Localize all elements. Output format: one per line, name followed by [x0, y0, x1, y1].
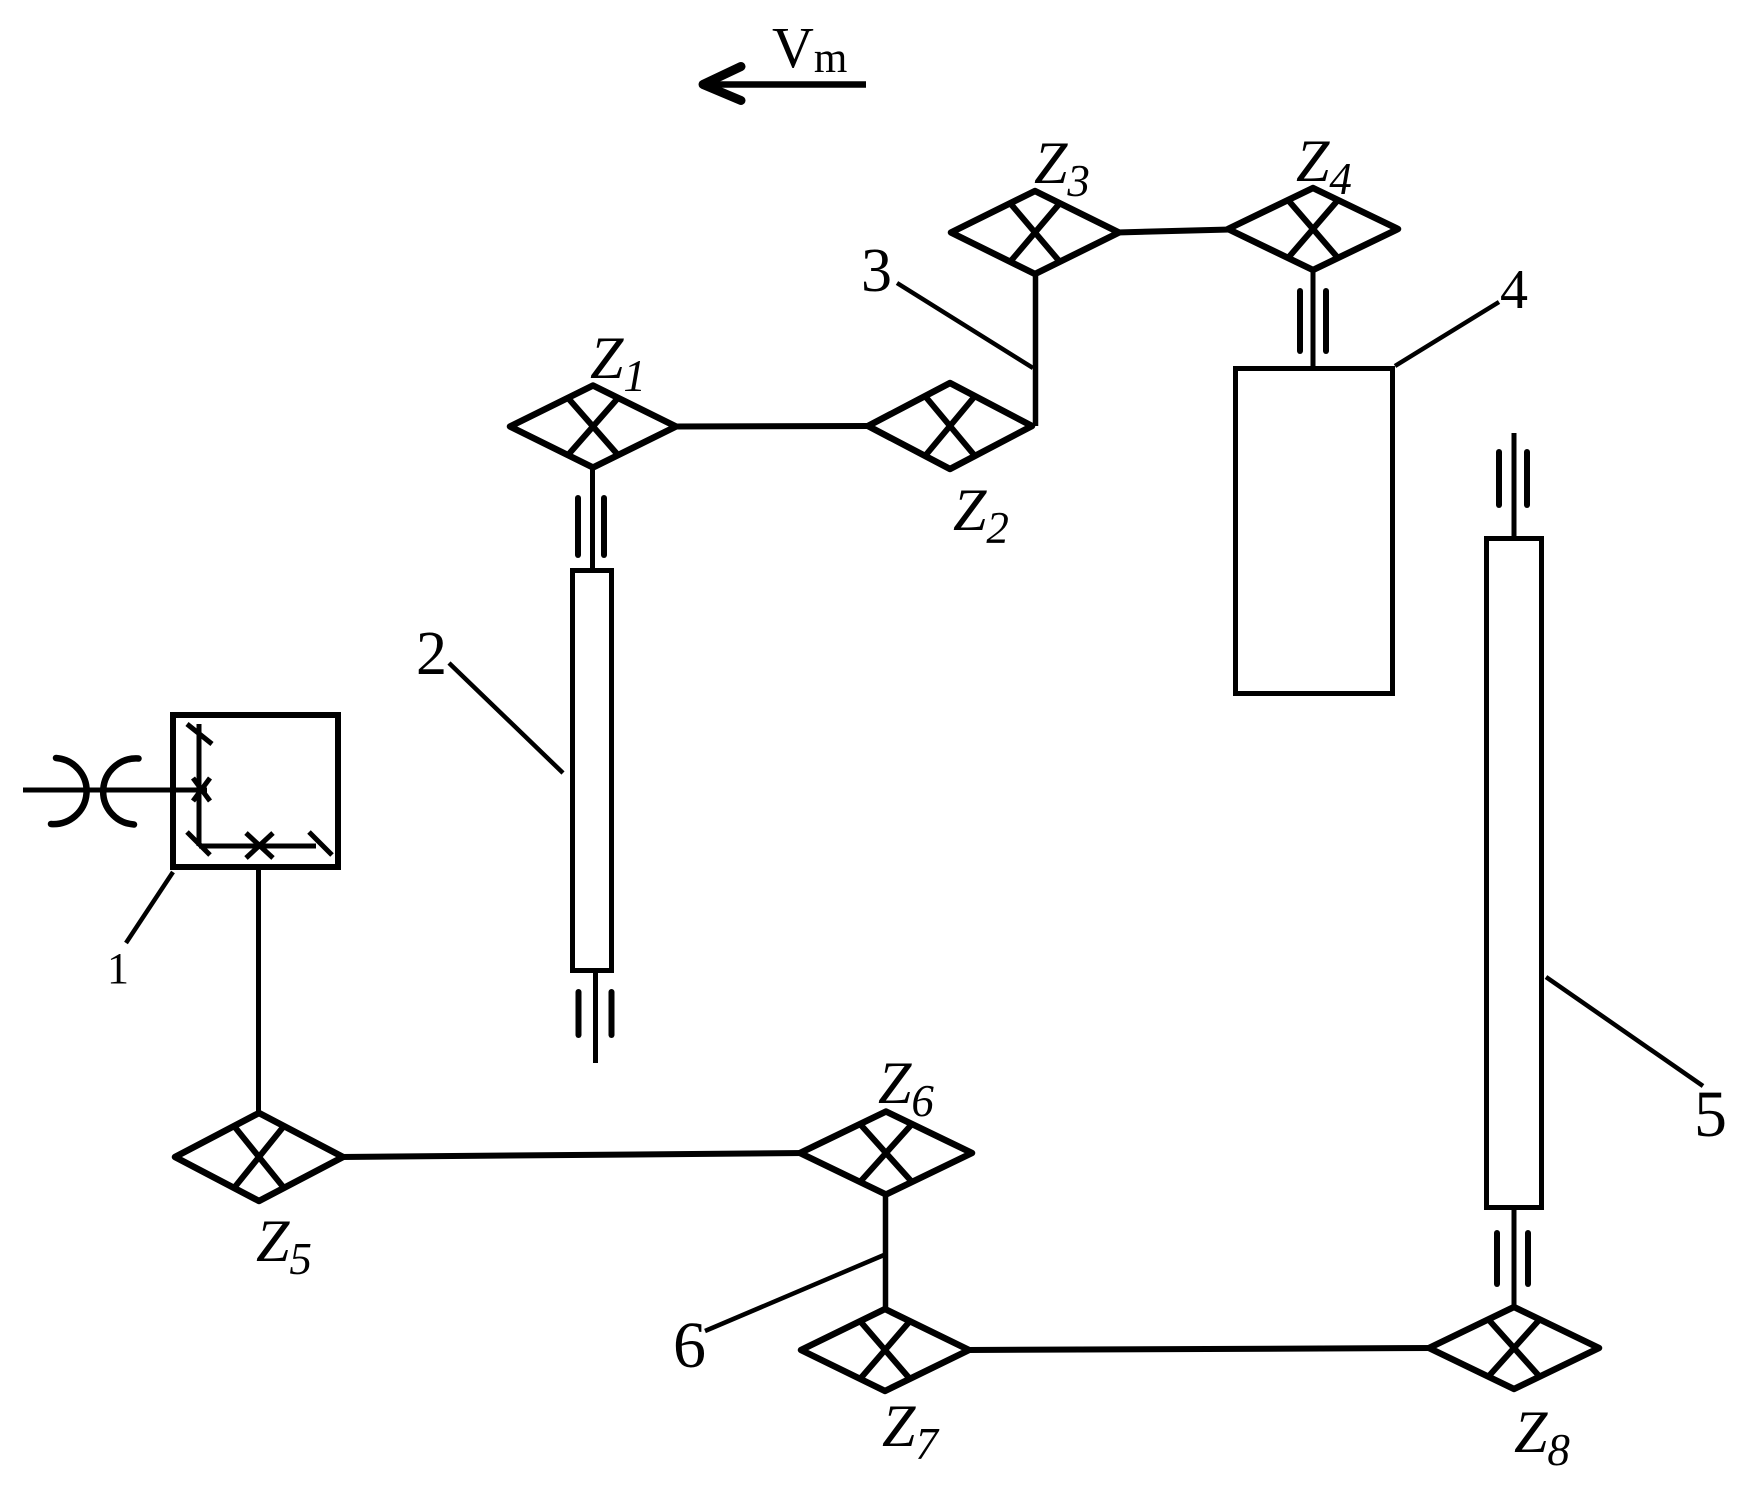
- gearbox 1 housing: [173, 715, 338, 867]
- worm cross on input shaft: [193, 778, 210, 801]
- coupling marks above column 5: [1499, 452, 1527, 505]
- leader line 2: [449, 663, 563, 773]
- shaft wire Z5-Z6: [341, 1153, 805, 1157]
- vertical shaft 6 (Z6-Z7): [883, 1192, 889, 1310]
- coupling marks below column 2: [579, 992, 612, 1035]
- output shaft gearbox to Z5: [256, 868, 261, 1115]
- coupling marks above column 2: [578, 498, 604, 555]
- bevel gear Z1: [510, 386, 676, 468]
- coupling marks below column 5: [1497, 1233, 1528, 1284]
- block 4: [1236, 369, 1393, 694]
- shaft wire Z4 to block 4: [1311, 268, 1316, 368]
- bevel gear Z2: [868, 383, 1032, 469]
- shaft wire Z3-Z4: [1117, 230, 1230, 233]
- svg-text:1: 1: [107, 944, 129, 993]
- coupling marks above block 4: [1300, 291, 1326, 351]
- leader line 5: [1546, 977, 1703, 1086]
- leader line 4: [1395, 302, 1499, 366]
- shaft wire Z1 to column 2: [590, 466, 595, 570]
- bevel gear Z7: [801, 1309, 969, 1391]
- svg-text:2: 2: [416, 620, 447, 688]
- shaft wire column 5 to Z8: [1512, 1210, 1517, 1309]
- bevel gear Z5: [175, 1113, 343, 1201]
- gear cross on lower shaft: [246, 833, 273, 858]
- bevel gear Z3: [951, 191, 1119, 274]
- bevel gear Z4: [1228, 188, 1398, 270]
- bearing tick top: [187, 724, 212, 744]
- bearing tick right: [309, 832, 332, 855]
- svg-text:4: 4: [1500, 259, 1528, 321]
- gearbox internal gear shafts: [199, 724, 316, 846]
- column 2 (lead screw): [573, 571, 612, 971]
- column 5 (lead screw): [1487, 539, 1542, 1208]
- bevel gear Z8: [1429, 1307, 1599, 1389]
- shaft stub above column 5: [1512, 433, 1517, 538]
- svg-text:5: 5: [1694, 1078, 1727, 1151]
- leader line 3: [897, 283, 1033, 368]
- svg-text:6: 6: [673, 1309, 706, 1382]
- shaft wire Z7-Z8: [968, 1348, 1434, 1350]
- shaft stub below column 2: [593, 973, 598, 1063]
- vertical shaft 3 (Z3-Z2): [1033, 272, 1039, 426]
- svg-text:3: 3: [861, 237, 892, 305]
- leader line 6: [705, 1255, 884, 1331]
- leader line 1: [126, 872, 173, 943]
- bevel gear Z6: [800, 1112, 972, 1195]
- shaft wire Z1-Z2: [674, 423, 870, 430]
- flexible coupling on input shaft: [51, 758, 139, 825]
- velocity arrow Vm: [703, 67, 866, 101]
- input shaft: [23, 788, 207, 793]
- bearing tick corner: [187, 832, 210, 855]
